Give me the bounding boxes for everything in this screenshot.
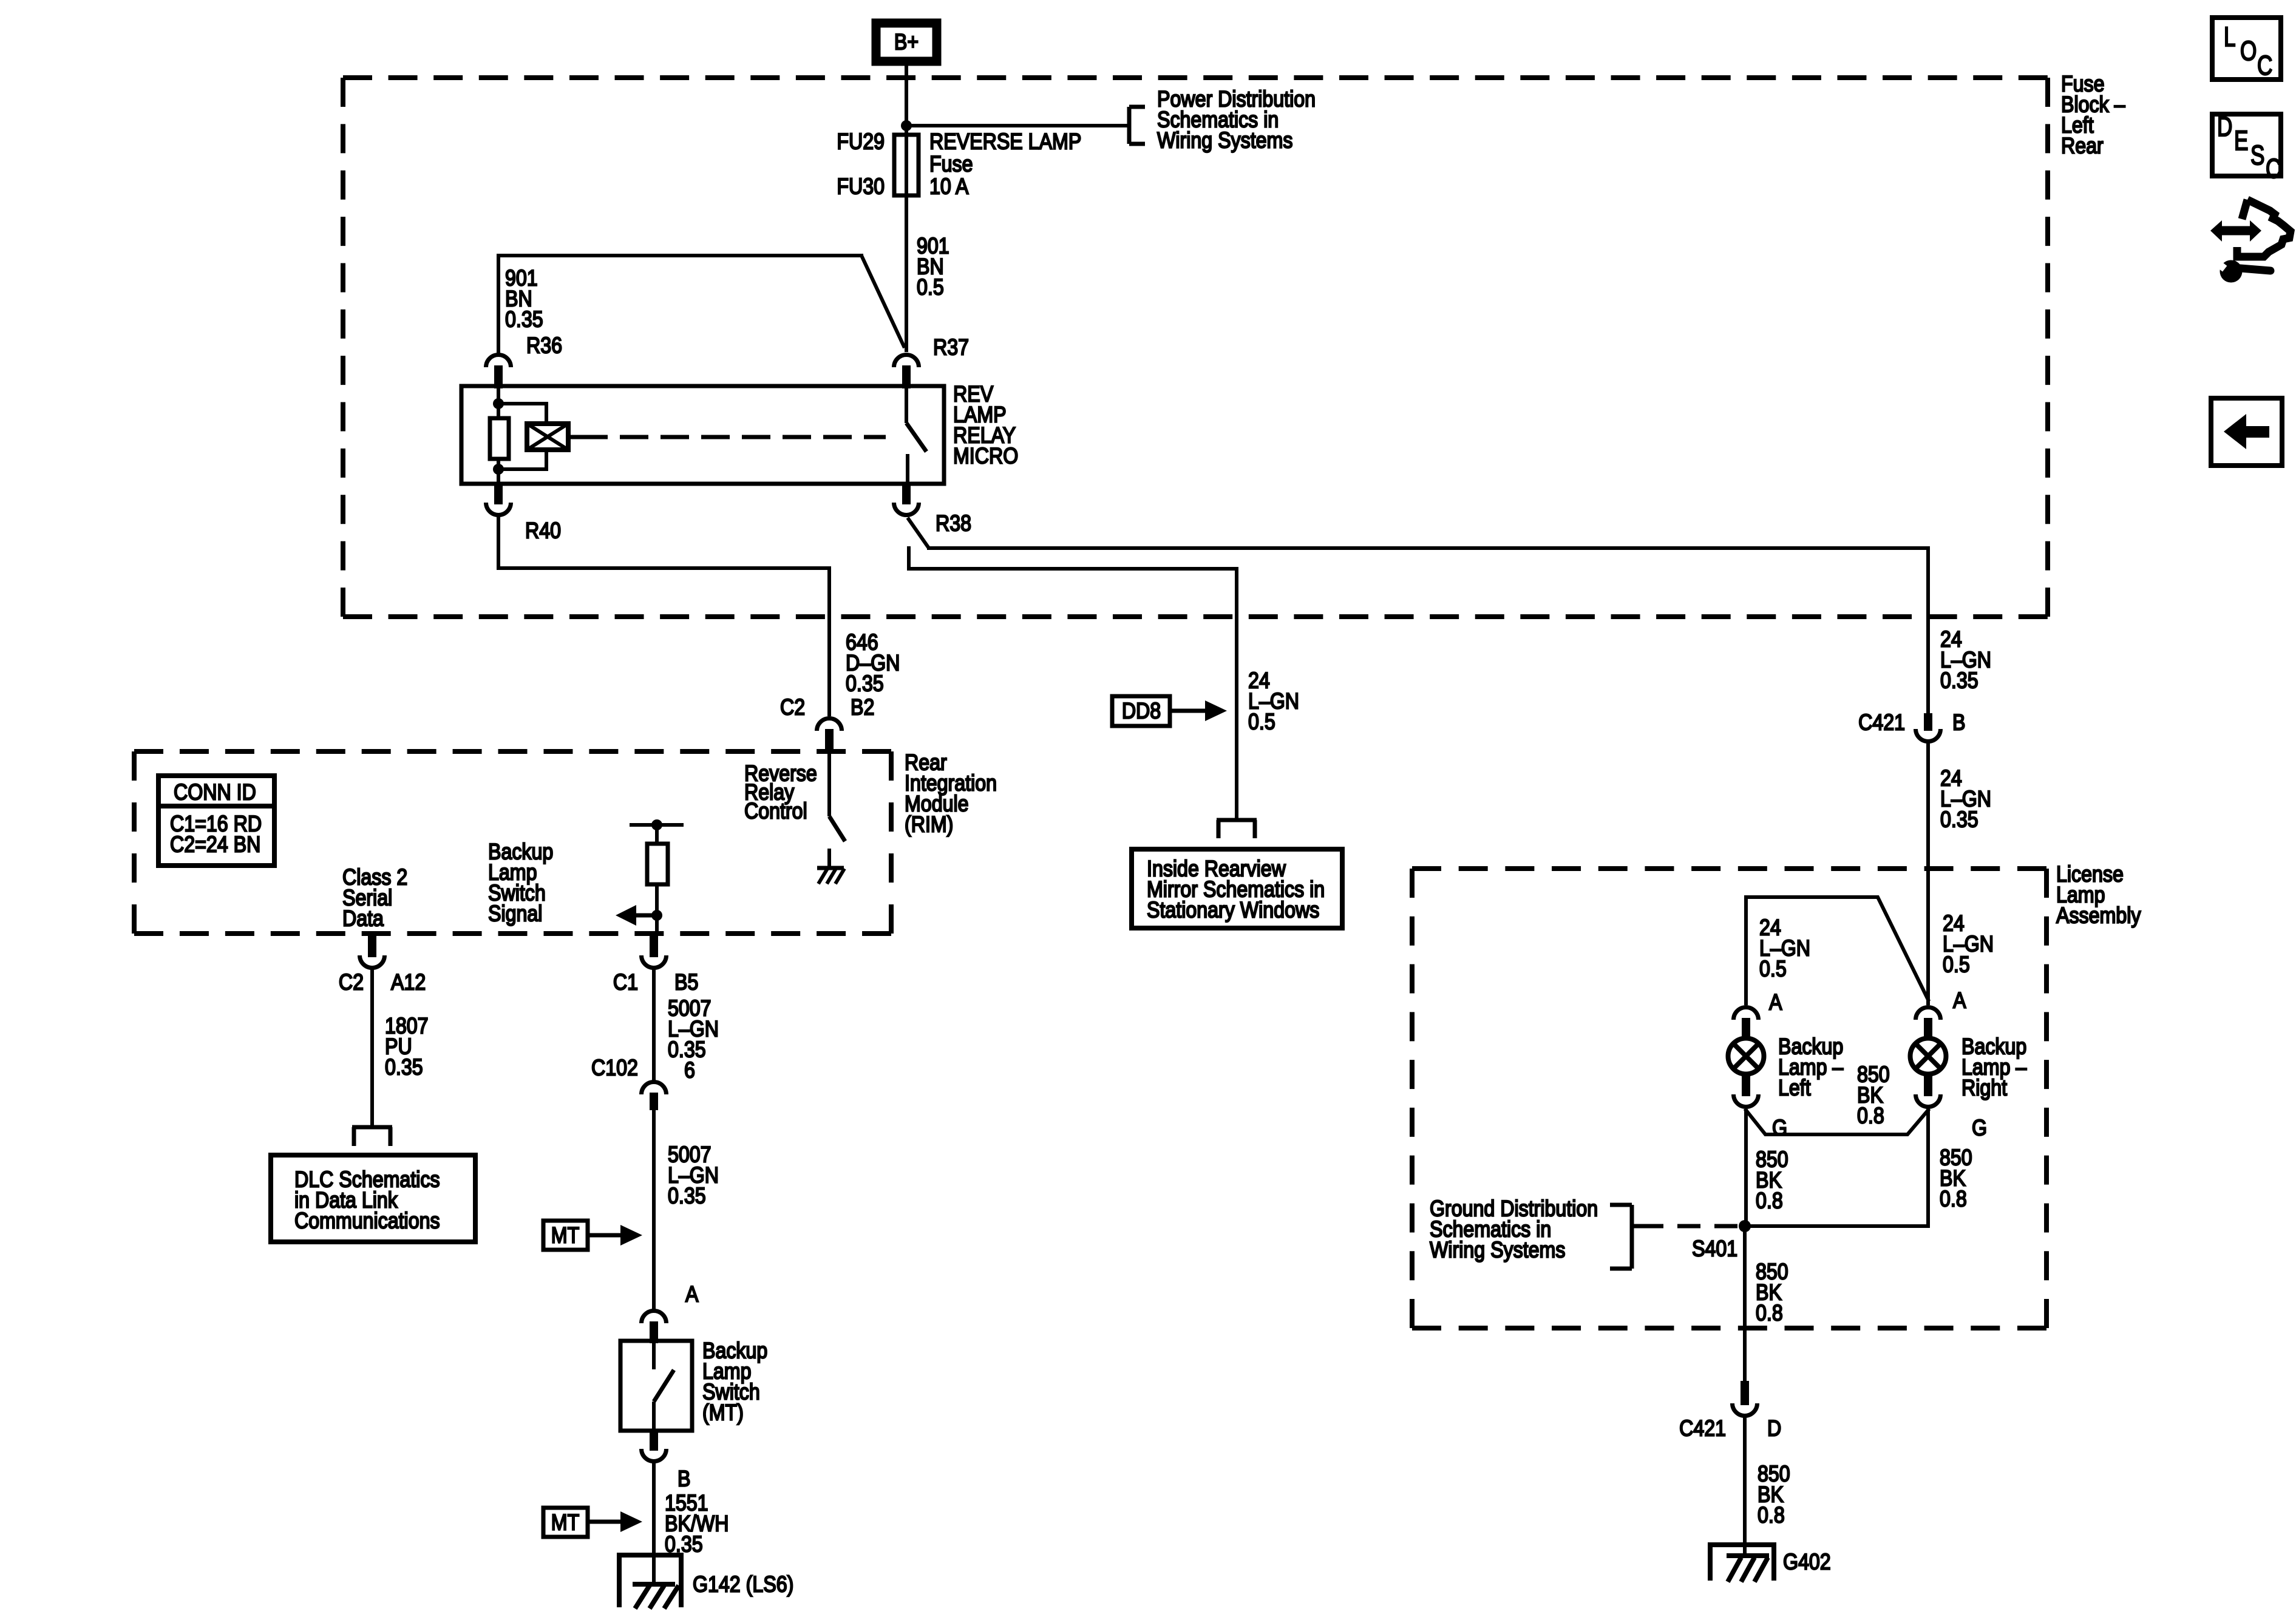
svg-text:0.35: 0.35 <box>385 1055 423 1080</box>
svg-text:C1: C1 <box>613 970 638 995</box>
svg-text:C421: C421 <box>1858 710 1905 735</box>
svg-text:G142 (LS6): G142 (LS6) <box>693 1572 793 1597</box>
svg-text:C: C <box>2266 153 2281 184</box>
svg-text:C421: C421 <box>1679 1416 1726 1441</box>
svg-text:G: G <box>1772 1116 1787 1141</box>
svg-text:Communications: Communications <box>294 1209 440 1233</box>
svg-text:0.5: 0.5 <box>1943 952 1970 977</box>
svg-text:0.5: 0.5 <box>1248 710 1275 734</box>
svg-text:B2: B2 <box>851 695 874 720</box>
svg-text:CONN ID: CONN ID <box>174 780 256 805</box>
svg-text:O: O <box>2240 35 2257 66</box>
svg-text:MT: MT <box>551 1510 579 1535</box>
svg-text:0.8: 0.8 <box>1857 1103 1884 1128</box>
svg-text:G402: G402 <box>1783 1550 1831 1575</box>
svg-text:(RIM): (RIM) <box>905 812 953 837</box>
svg-text:D: D <box>1767 1416 1781 1441</box>
svg-text:Rear: Rear <box>2061 134 2104 158</box>
svg-text:B: B <box>1952 710 1965 735</box>
svg-text:MICRO: MICRO <box>953 444 1018 469</box>
svg-text:E: E <box>2234 125 2248 156</box>
svg-text:Data: Data <box>342 906 384 931</box>
svg-text:Wiring Systems: Wiring Systems <box>1157 128 1292 153</box>
svg-text:C2: C2 <box>339 970 364 995</box>
svg-text:C102: C102 <box>591 1056 638 1080</box>
svg-text:Left: Left <box>1778 1076 1811 1100</box>
svg-text:C: C <box>2257 50 2272 81</box>
svg-text:0.35: 0.35 <box>668 1184 706 1209</box>
svg-text:A12: A12 <box>391 970 426 995</box>
svg-text:B5: B5 <box>674 970 698 995</box>
svg-text:R38: R38 <box>936 511 971 536</box>
svg-text:Wiring Systems: Wiring Systems <box>1430 1238 1565 1263</box>
svg-text:C2=24 BN: C2=24 BN <box>170 832 260 857</box>
svg-text:0.35: 0.35 <box>846 671 884 696</box>
svg-text:B+: B+ <box>894 30 919 55</box>
svg-text:REVERSE LAMP: REVERSE LAMP <box>929 129 1081 154</box>
svg-text:S: S <box>2250 140 2264 171</box>
svg-text:G: G <box>1972 1116 1987 1141</box>
svg-text:D: D <box>2217 111 2232 142</box>
svg-text:DD8: DD8 <box>1122 699 1161 724</box>
svg-text:Fuse: Fuse <box>929 152 973 177</box>
svg-text:0.8: 0.8 <box>1758 1503 1785 1528</box>
svg-text:0.35: 0.35 <box>1940 668 1978 693</box>
svg-text:0.8: 0.8 <box>1940 1187 1967 1212</box>
svg-text:Control: Control <box>744 799 807 824</box>
svg-text:Stationary Windows: Stationary Windows <box>1147 898 1319 923</box>
svg-text:0.5: 0.5 <box>917 275 944 300</box>
svg-text:A: A <box>1953 988 1966 1013</box>
svg-text:R37: R37 <box>933 335 969 360</box>
svg-text:R36: R36 <box>526 333 562 358</box>
svg-text:L: L <box>2224 21 2236 52</box>
svg-text:6: 6 <box>684 1058 695 1083</box>
svg-text:0.35: 0.35 <box>505 307 543 332</box>
svg-text:0.35: 0.35 <box>1940 807 1978 832</box>
svg-text:MT: MT <box>551 1223 579 1248</box>
svg-text:FU29: FU29 <box>837 129 885 154</box>
svg-text:0.5: 0.5 <box>1759 957 1787 981</box>
svg-text:B: B <box>678 1466 690 1491</box>
svg-text:Right: Right <box>1961 1076 2007 1100</box>
svg-text:A: A <box>685 1282 699 1307</box>
svg-text:(MT): (MT) <box>702 1400 744 1425</box>
svg-text:0.8: 0.8 <box>1756 1188 1783 1213</box>
svg-text:Signal: Signal <box>488 901 542 926</box>
svg-text:FU30: FU30 <box>837 174 885 199</box>
svg-text:S401: S401 <box>1692 1236 1737 1261</box>
svg-text:R40: R40 <box>525 518 561 543</box>
svg-text:0.8: 0.8 <box>1756 1301 1783 1326</box>
svg-text:C2: C2 <box>780 695 805 720</box>
svg-text:Assembly: Assembly <box>2056 903 2141 928</box>
svg-text:10 A: 10 A <box>929 174 969 199</box>
svg-text:A: A <box>1769 990 1782 1015</box>
